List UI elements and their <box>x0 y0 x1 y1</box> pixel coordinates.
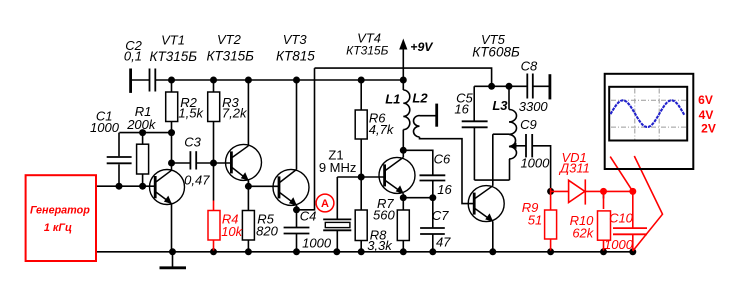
svg-text:+9V: +9V <box>410 40 434 54</box>
svg-text:9 MHz: 9 MHz <box>319 160 357 175</box>
svg-text:62k: 62k <box>572 225 594 240</box>
svg-text:L3: L3 <box>492 98 508 113</box>
svg-text:1000: 1000 <box>302 236 332 251</box>
svg-text:A: A <box>321 198 329 210</box>
svg-text:0,1: 0,1 <box>124 49 142 64</box>
svg-text:L1: L1 <box>385 92 400 107</box>
svg-text:КТ815: КТ815 <box>276 48 315 63</box>
svg-text:VT2: VT2 <box>217 32 242 47</box>
svg-text:C3: C3 <box>184 134 201 149</box>
svg-text:КТ315Б: КТ315Б <box>346 43 388 57</box>
svg-text:1000: 1000 <box>604 237 634 252</box>
svg-text:C8: C8 <box>521 58 538 73</box>
svg-text:C10: C10 <box>609 211 634 226</box>
svg-text:КТ608Б: КТ608Б <box>472 44 520 59</box>
svg-text:VT1: VT1 <box>161 32 185 47</box>
svg-text:10k: 10k <box>221 224 243 239</box>
svg-text:3300: 3300 <box>519 99 549 114</box>
svg-text:1000: 1000 <box>520 156 550 171</box>
svg-text:1000: 1000 <box>90 120 120 135</box>
svg-text:6V: 6V <box>698 93 713 107</box>
svg-text:C6: C6 <box>434 152 451 167</box>
svg-text:КТ315Б: КТ315Б <box>150 49 198 64</box>
svg-text:C7: C7 <box>432 208 449 223</box>
svg-text:16: 16 <box>454 102 469 117</box>
svg-text:3,3k: 3,3k <box>367 238 393 253</box>
svg-text:560: 560 <box>373 208 395 223</box>
svg-text:VT3: VT3 <box>283 32 308 47</box>
svg-text:51: 51 <box>528 213 542 228</box>
svg-text:0,47: 0,47 <box>184 173 210 188</box>
svg-text:4V: 4V <box>699 108 714 122</box>
svg-text:Д311: Д311 <box>558 161 590 176</box>
svg-text:1,5k: 1,5k <box>178 106 204 121</box>
svg-text:Генератор: Генератор <box>30 204 90 216</box>
svg-text:2V: 2V <box>701 122 716 136</box>
svg-text:4,7k: 4,7k <box>369 122 395 137</box>
svg-text:7,2k: 7,2k <box>222 106 248 121</box>
svg-text:C9: C9 <box>520 117 537 132</box>
svg-text:47: 47 <box>436 235 451 250</box>
svg-text:200k: 200k <box>126 117 157 132</box>
svg-text:КТ315Б: КТ315Б <box>206 48 254 63</box>
svg-text:C4: C4 <box>300 208 317 223</box>
svg-text:16: 16 <box>437 182 452 197</box>
svg-text:L2: L2 <box>412 91 428 106</box>
svg-text:820: 820 <box>256 224 278 239</box>
svg-text:1 кГц: 1 кГц <box>44 222 72 234</box>
